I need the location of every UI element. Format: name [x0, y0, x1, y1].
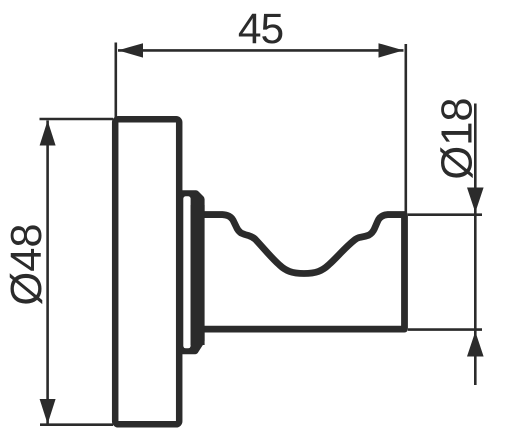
dimension D18: bottom extension line [408, 328, 482, 331]
collar inner slot [183, 196, 190, 348]
dimension 45: right arrowhead [379, 43, 404, 57]
dimension 45: right extension line [404, 44, 407, 212]
dimension D18: top extension line [408, 213, 482, 216]
dimension D48: bottom extension line [40, 423, 113, 426]
dimension D18: dimension line with tails [474, 104, 477, 386]
svg-text:Ø48: Ø48 [3, 223, 51, 305]
wall plate (rosette) [115, 119, 179, 424]
collar (mounting neck, filled) [181, 190, 205, 354]
hook body with decorative cove profile [200, 215, 405, 330]
dimension 45: dimension line [118, 49, 404, 52]
dimension D18: lower arrowhead (pointing up) [467, 332, 484, 357]
dimension D48: bottom arrowhead [40, 399, 56, 424]
svg-text:Ø18: Ø18 [433, 97, 481, 179]
dimension D48: dimension line [46, 121, 49, 425]
collar right wall (over hook joint) [191, 205, 205, 345]
dimension D18: upper arrowhead (pointing down) [467, 188, 484, 213]
dimension D48: top extension line [40, 118, 114, 121]
dimension 45: left extension line [115, 43, 118, 127]
svg-text:45: 45 [238, 6, 283, 53]
dimension D48: top arrowhead [40, 121, 56, 146]
dimension 45: left arrowhead [118, 43, 143, 57]
